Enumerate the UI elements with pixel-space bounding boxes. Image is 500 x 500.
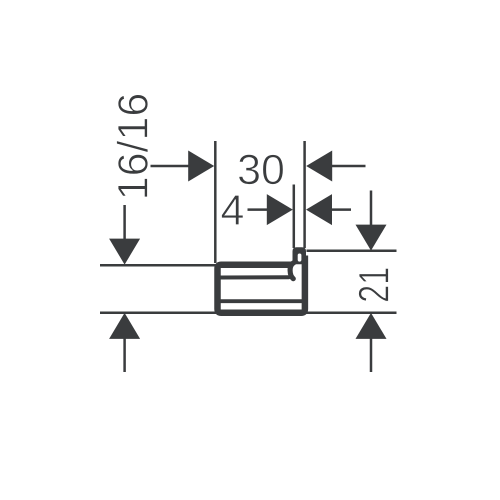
left down-arrow stem bbox=[123, 205, 126, 242]
16/16 arrow tail bbox=[151, 165, 193, 168]
bottom horizontal reference line bbox=[100, 311, 397, 314]
right horizontal reference line bbox=[307, 250, 397, 253]
profile outer box bbox=[218, 256, 305, 313]
4 right arrow tail bbox=[328, 208, 351, 211]
down arrowhead right bbox=[356, 225, 387, 251]
inner bottom line bbox=[220, 299, 303, 303]
right-pointing arrowhead (4) bbox=[267, 194, 293, 225]
extension line C (right of 30/4 dims) bbox=[303, 141, 306, 248]
inner shelf line bbox=[220, 275, 289, 279]
right up-arrow stem bbox=[370, 335, 373, 372]
profile hook stub bbox=[293, 247, 307, 264]
up arrowhead right bbox=[356, 313, 387, 339]
extension line A (left of 30 dim) bbox=[214, 141, 217, 263]
hook slot bbox=[298, 254, 302, 262]
up arrowhead left bbox=[109, 313, 140, 339]
4 left arrow tail bbox=[248, 208, 271, 211]
left-pointing arrowhead (30) bbox=[306, 151, 332, 182]
left-pointing arrowhead (4) bbox=[306, 194, 332, 225]
left up-arrow stem bbox=[123, 335, 126, 372]
30 arrow tail bbox=[328, 165, 366, 168]
left horizontal reference line bbox=[100, 264, 216, 267]
svg-text:4: 4 bbox=[220, 187, 244, 235]
svg-text:16/16: 16/16 bbox=[109, 93, 157, 201]
right-pointing arrowhead (16/16) bbox=[188, 151, 214, 182]
down arrowhead left bbox=[109, 239, 140, 265]
hook curl bbox=[290, 263, 294, 279]
right down-arrow stem bbox=[370, 191, 373, 229]
extension line B (left of 4 dim) bbox=[293, 185, 296, 249]
svg-text:21: 21 bbox=[351, 267, 399, 303]
